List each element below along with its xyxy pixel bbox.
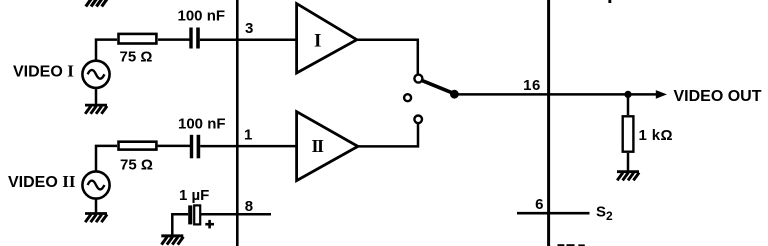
wire capacitor to amp II input (crosses pin 1) bbox=[200, 145, 297, 148]
plus mark bbox=[205, 220, 214, 229]
switch common node (dot) bbox=[450, 90, 459, 99]
svg-text:1: 1 bbox=[244, 126, 252, 143]
ground (below 1k resistor) bbox=[617, 172, 639, 181]
svg-text:16: 16 bbox=[523, 77, 541, 94]
resistor 1k ohm bbox=[623, 116, 634, 151]
svg-text:8: 8 bbox=[245, 198, 253, 215]
switch wiper bbox=[422, 80, 454, 93]
capacitor 1uF (polarized) bbox=[188, 205, 192, 224]
svg-text:3: 3 bbox=[245, 20, 253, 37]
svg-text:75 Ω: 75 Ω bbox=[120, 157, 153, 174]
wire V1 bottom to ground bbox=[95, 88, 98, 105]
label SDA (cropped at bottom) bbox=[558, 244, 585, 246]
wire capacitor to amp I input (crosses pin 3) bbox=[200, 38, 297, 41]
ground (top-left, cropped hatching) bbox=[86, 0, 108, 7]
svg-text:VIDEO OUT: VIDEO OUT bbox=[674, 88, 762, 105]
svg-text:100 nF: 100 nF bbox=[178, 7, 226, 24]
svg-text:II: II bbox=[312, 136, 325, 156]
IC right boundary line (pins 16,6) bbox=[547, 0, 550, 246]
wire resistor to capacitor bbox=[158, 38, 190, 41]
svg-text:VIDEO I: VIDEO I bbox=[13, 62, 74, 81]
wire V1 top to resistor bbox=[96, 40, 117, 61]
svg-text:1 kΩ: 1 kΩ bbox=[639, 127, 673, 144]
svg-text:75 Ω: 75 Ω bbox=[120, 49, 153, 66]
capacitor 100nF (lower) bbox=[190, 135, 200, 159]
wire V2 top to resistor bbox=[96, 146, 117, 172]
source V2 (sine source) bbox=[82, 171, 109, 198]
svg-text:I: I bbox=[314, 30, 321, 51]
resistor 75 ohm (upper) bbox=[119, 34, 157, 44]
svg-text:VIDEO II: VIDEO II bbox=[8, 172, 76, 191]
ground (below V1) bbox=[85, 105, 107, 114]
wire pin 6 to S2 bbox=[517, 212, 590, 215]
node junction (output) bbox=[624, 91, 631, 98]
wire resistor to capacitor (lower) bbox=[158, 145, 190, 148]
ground (below V2) bbox=[85, 214, 107, 223]
ground (below 1uF capacitor) bbox=[161, 236, 183, 245]
wire V2 bottom to ground bbox=[95, 199, 98, 213]
IC left boundary line (pins 3,1,8) bbox=[236, 0, 239, 246]
op-amp II bbox=[297, 112, 358, 181]
arrow to VIDEO OUT bbox=[628, 93, 657, 96]
wire ground corner to capacitor 1uF bbox=[172, 214, 188, 235]
wire switch to output junction (crosses pin 16) bbox=[454, 93, 628, 96]
wire amp II output up to switch lower contact bbox=[358, 123, 418, 146]
wire 1k resistor to ground bbox=[627, 153, 630, 171]
switch middle contact bbox=[404, 94, 411, 101]
wire junction down to 1k resistor bbox=[627, 94, 630, 115]
switch lower contact bbox=[414, 116, 422, 124]
wire capacitor 1uF to pin 8 bbox=[200, 213, 271, 216]
source V1 (sine source) bbox=[82, 61, 109, 88]
switch upper contact bbox=[414, 75, 422, 83]
resistor 75 ohm (lower) bbox=[119, 142, 157, 150]
capacitor 100nF (upper) bbox=[189, 28, 200, 49]
svg-text:6: 6 bbox=[535, 196, 543, 213]
stray mark (cropped text, top right) bbox=[608, 0, 611, 3]
svg-text:100 nF: 100 nF bbox=[178, 115, 226, 132]
op-amp I bbox=[297, 4, 357, 73]
svg-text:1 µF: 1 µF bbox=[179, 187, 209, 204]
wire amp I output to switch upper contact bbox=[357, 40, 418, 75]
